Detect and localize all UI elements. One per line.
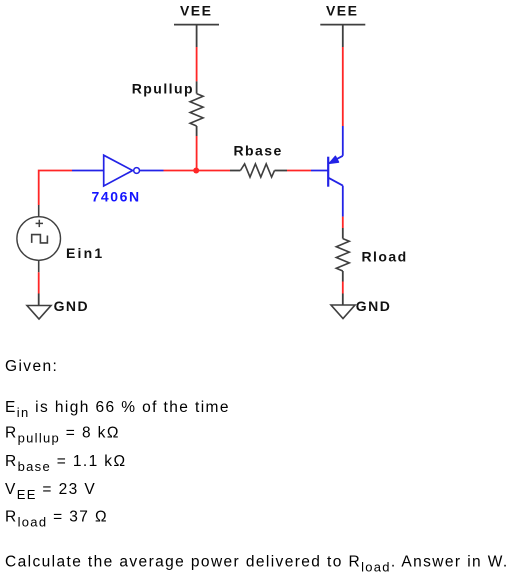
pin Rload top <box>342 228 344 239</box>
source Ein1 pin top <box>38 205 40 217</box>
power symbol VEE (right) <box>320 25 365 47</box>
svg-text:Rbase: Rbase <box>234 143 283 159</box>
inverter bubble <box>134 168 140 174</box>
op-amp U1 inverter 7406N triangle <box>104 155 133 186</box>
source square-wave glyph <box>32 235 48 243</box>
wire collector to Rload (red) <box>342 217 344 228</box>
wire Rbase to transistor base (red) <box>287 170 311 172</box>
pin emitter up (blue) <box>342 126 344 156</box>
pin collector down (blue) <box>342 186 344 217</box>
source plus sign <box>36 220 43 227</box>
wire VEE to Rpullup (red) <box>196 47 198 81</box>
pin Rload bottom <box>342 271 344 282</box>
svg-text:7406N: 7406N <box>92 189 141 205</box>
transistor Q1 (PNP) <box>328 156 343 187</box>
svg-text:VEE: VEE <box>326 3 358 19</box>
pin inverter output (blue) <box>140 170 164 172</box>
svg-text:Rpullup: Rpullup <box>132 81 194 97</box>
source Ein1 circle <box>17 217 61 261</box>
pin Rbase left <box>230 170 240 172</box>
svg-text:VEE: VEE <box>180 3 212 19</box>
source Ein1 pin bottom <box>38 260 40 272</box>
pin Rpullup bottom <box>196 126 198 136</box>
wire Rpullup to node (red) <box>196 136 198 171</box>
ground (right) <box>331 305 355 319</box>
pin Rpullup top <box>196 81 198 93</box>
transistor emitter arrow <box>330 156 339 163</box>
resistor Rbase <box>240 164 274 177</box>
resistor Rload <box>336 239 349 271</box>
ground stem (left) <box>38 294 40 306</box>
wire inverter output to Rbase (red) <box>164 170 231 172</box>
svg-text:Given:: Given: <box>5 358 58 375</box>
ground (left) <box>27 306 51 320</box>
pin Rbase right <box>275 170 288 172</box>
wire emitter to VEE (red) <box>342 47 344 126</box>
svg-text:GND: GND <box>356 298 391 314</box>
wire Ein1 to inverter input (red) <box>39 171 72 206</box>
power symbol VEE (left) <box>174 25 219 47</box>
svg-text:GND: GND <box>54 298 89 314</box>
wire Ein1 to GND (red) <box>38 272 40 293</box>
svg-text:Ein1: Ein1 <box>66 245 104 261</box>
ground stem (right) <box>342 294 344 306</box>
pin transistor base (blue) <box>311 170 328 172</box>
node junction dot <box>193 168 199 174</box>
pin inverter input (blue) <box>72 170 104 172</box>
svg-text:Rload: Rload <box>362 249 408 265</box>
wire Rload to GND (red) <box>342 282 344 294</box>
resistor Rpullup <box>190 94 203 126</box>
